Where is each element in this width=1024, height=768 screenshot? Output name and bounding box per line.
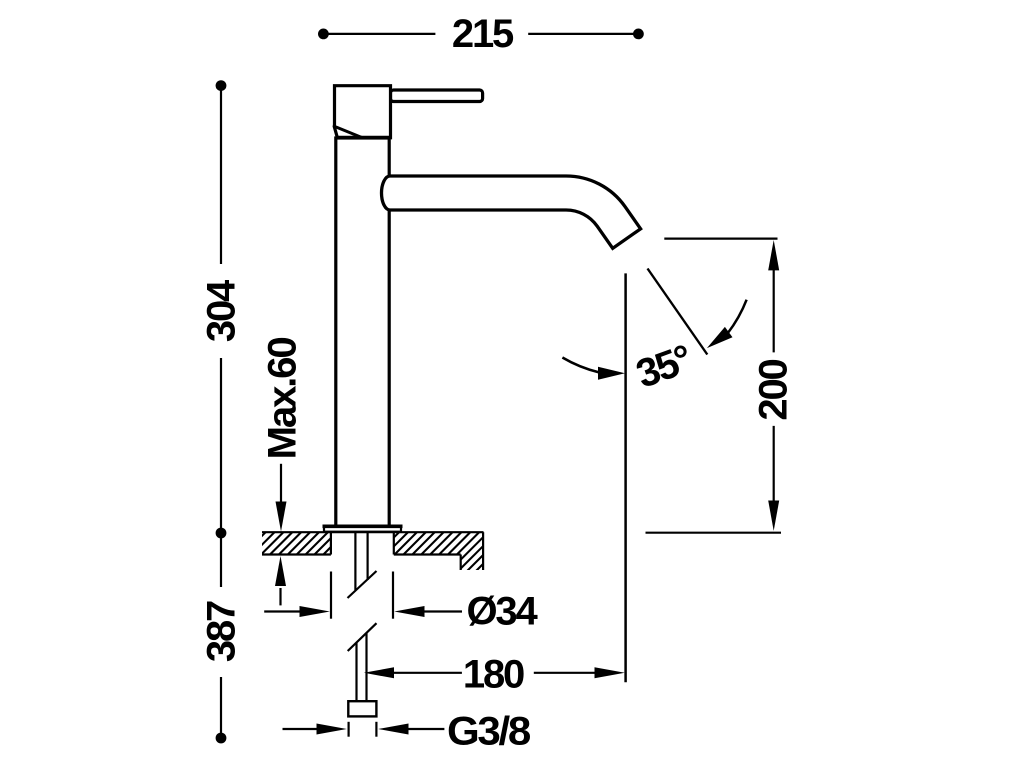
svg-text:215: 215 — [452, 12, 514, 56]
svg-text:387: 387 — [199, 601, 243, 662]
svg-text:200: 200 — [752, 359, 796, 420]
svg-text:304: 304 — [199, 279, 243, 342]
svg-text:Max.60: Max.60 — [261, 338, 305, 460]
svg-text:180: 180 — [463, 652, 524, 696]
svg-text:G3/8: G3/8 — [447, 710, 531, 754]
svg-text:Ø34: Ø34 — [467, 590, 539, 634]
